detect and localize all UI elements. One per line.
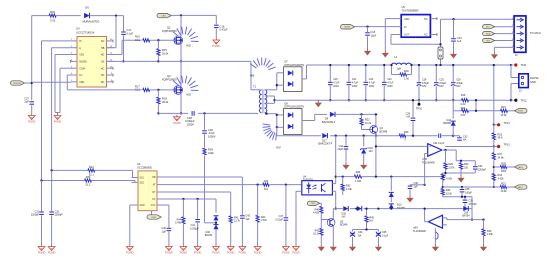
svg-text:NC: NC (424, 18, 428, 21)
svg-text:10.0k: 10.0k (500, 114, 507, 117)
resistor R33 (341, 175, 353, 194)
svg-text:R16: R16 (135, 35, 140, 39)
net label MCU3 (483, 38, 495, 42)
svg-text:LO: LO (79, 74, 82, 77)
capacitor C47 (276, 185, 289, 245)
resistor R26 (399, 131, 409, 141)
capacitor C30 (202, 113, 216, 147)
svg-text:DTPG20H1200TN: DTPG20H1200TN (285, 64, 305, 67)
capacitor C34 (473, 161, 487, 173)
svg-text:PGND: PGND (282, 251, 290, 255)
svg-text:10µF: 10µF (371, 34, 377, 37)
test point TP10 (416, 100, 423, 110)
svg-text:PGND: PGND (239, 251, 247, 255)
ground PGND C31 (38, 244, 46, 254)
junction rail TP11 (510, 64, 512, 66)
svg-text:2200pF: 2200pF (478, 168, 487, 171)
svg-text:0.1µF: 0.1µF (127, 31, 134, 35)
capacitor C31 (31, 181, 44, 245)
ground PGND R41 (227, 244, 235, 254)
wire D15 row (333, 208, 472, 210)
svg-text:SS1: SS1 (140, 177, 145, 179)
svg-text:C21 0.1µF: C21 0.1µF (433, 142, 445, 145)
svg-text:IN: IN (404, 26, 407, 29)
regulator U5 TLV70450 (401, 5, 430, 37)
ground AGND U5 (382, 51, 389, 58)
svg-text:ISNS: ISNS (518, 111, 524, 113)
heatsink H03 (173, 76, 199, 97)
wire D8 anodes (276, 114, 284, 129)
svg-text:TL103WAD: TL103WAD (413, 230, 426, 233)
resistor R15 (157, 40, 169, 61)
diode pack D8 (284, 102, 305, 134)
U6B output (442, 149, 456, 151)
test point TP14 (493, 122, 510, 126)
ground PGND U4 (292, 244, 300, 254)
svg-text:1µF: 1µF (457, 40, 462, 43)
svg-text:R26: R26 (404, 131, 409, 134)
wire J2 pin3 (494, 33, 514, 35)
resistor R44 (175, 199, 185, 244)
svg-text:PGND: PGND (165, 251, 173, 255)
net label IOUT (515, 109, 528, 113)
svg-text:0.47µF: 0.47µF (220, 28, 229, 32)
ground PGND C47 (282, 244, 290, 254)
svg-text:20.0k: 20.0k (162, 100, 169, 104)
svg-text:R36: R36 (264, 180, 269, 183)
wire R27 row left (462, 186, 494, 188)
wire D8 cathode (302, 114, 315, 120)
wire TP13 to opamp (446, 146, 494, 148)
wire 5V line (441, 18, 515, 20)
wire fb top (456, 150, 475, 161)
resistor R20 (461, 107, 501, 117)
ground PGND C27 (28, 113, 36, 123)
heatsink H08 (250, 58, 276, 78)
U3 pins (71, 39, 114, 84)
capacitor C40 (162, 227, 172, 244)
svg-text:3.32: 3.32 (50, 18, 56, 22)
wire fb mid row (443, 196, 472, 198)
wire U3 HO to gate (107, 40, 142, 54)
resistor R17 (135, 84, 175, 91)
svg-text:COM: COM (79, 67, 85, 70)
wire R35 join (442, 186, 462, 188)
svg-text:D6: D6 (85, 6, 89, 10)
transistor Q4 (370, 126, 388, 134)
svg-text:12VDRV: 12VDRV (13, 83, 22, 85)
capacitor C21b (433, 134, 445, 145)
zener D10 (360, 135, 373, 163)
svg-text:10.2k: 10.2k (313, 233, 320, 236)
net label IOUT_FB (515, 185, 527, 189)
ground AGND bus (315, 100, 322, 107)
svg-text:Q3: Q3 (167, 74, 171, 78)
ground PGND VSS-COM (54, 113, 62, 123)
svg-text:VCC: VCC (151, 205, 156, 207)
svg-text:1µF: 1µF (246, 218, 251, 221)
resistor R39 (203, 148, 214, 220)
capacitor C21 (347, 64, 359, 102)
junction Q2 drain (180, 14, 182, 16)
diode D12 (442, 111, 455, 136)
ground AGND C45 (375, 244, 382, 251)
ground AGND R30 (457, 176, 464, 183)
svg-text:BAT54: BAT54 (462, 215, 470, 218)
resistor R45 (365, 207, 375, 229)
svg-text:100V: 100V (369, 85, 375, 88)
wire opto row (336, 176, 354, 178)
svg-text:NA: NA (407, 116, 411, 119)
ground PGND C32 (48, 244, 56, 254)
ground AGND U6A (432, 244, 439, 251)
junction HB node (115, 14, 117, 16)
ground PGND C43 (239, 244, 247, 254)
wire FB row2 (40, 179, 84, 181)
ground PGND Q3 (173, 115, 181, 125)
svg-text:IADJ: IADJ (518, 186, 523, 189)
svg-text:PGND: PGND (54, 120, 62, 124)
junction R22 (360, 113, 362, 115)
svg-text:HI: HI (79, 40, 82, 43)
wire fb bottom (443, 172, 476, 174)
capacitor C28 (185, 111, 195, 126)
diode pack D7 (284, 61, 305, 92)
capacitor C32 (49, 170, 63, 244)
svg-text:Q2: Q2 (167, 25, 171, 29)
svg-text:42V/3A: 42V/3A (530, 76, 539, 80)
svg-text:NC: NC (101, 81, 105, 84)
svg-text:OB: OB (152, 177, 156, 179)
svg-text:R21: R21 (501, 106, 506, 109)
wire U5 OUT (391, 35, 441, 45)
svg-text:20.0k: 20.0k (162, 52, 169, 56)
svg-text:1200V: 1200V (187, 123, 195, 127)
ground AGND C18 (364, 49, 371, 56)
svg-text:TO MCU: TO MCU (530, 31, 541, 35)
ground AGND D10 (360, 163, 367, 170)
wire R20 branch left (453, 100, 461, 111)
svg-text:MURA160T3G: MURA160T3G (82, 19, 99, 23)
U6A inputs (443, 218, 484, 225)
svg-text:100pF: 100pF (465, 191, 472, 194)
wire U2 row3 (166, 192, 231, 216)
wire sense column (493, 64, 495, 125)
wire U2 row1 (166, 177, 243, 215)
svg-text:R19: R19 (461, 94, 466, 97)
junction R32 row (375, 175, 444, 177)
wire T1 secondary top (265, 89, 277, 91)
U6A power glyph (435, 228, 438, 244)
svg-text:12.7k: 12.7k (234, 220, 241, 223)
resistor R42 (256, 185, 268, 245)
capacitor C44 (350, 230, 363, 245)
svg-text:R24: R24 (89, 166, 94, 169)
svg-text:DTPG20H1200TN: DTPG20H1200TN (285, 106, 305, 109)
svg-text:2200pF: 2200pF (55, 214, 64, 217)
capacitor C27 (24, 96, 34, 113)
wire T1 tap lower (265, 102, 275, 104)
wire U3 pin5 COM (58, 68, 71, 113)
resistor R29 (444, 150, 455, 173)
svg-text:BC846: BC846 (340, 224, 348, 227)
wire fb right col (471, 197, 473, 220)
capacitor C18 (365, 27, 377, 49)
svg-text:VADJ: VADJ (518, 166, 523, 169)
svg-text:2.87k: 2.87k (449, 166, 456, 169)
resistor R27 (494, 182, 515, 193)
svg-text:PGND: PGND (213, 44, 221, 48)
svg-text:NA: NA (358, 235, 362, 238)
wire 42V rail (307, 64, 512, 66)
svg-text:PGND: PGND (212, 251, 220, 255)
svg-text:10.2k: 10.2k (365, 122, 372, 125)
resistor R10 (49, 10, 81, 22)
svg-text:49.9: 49.9 (498, 137, 503, 140)
svg-text:H07: H07 (276, 147, 281, 150)
svg-text:R32: R32 (356, 171, 361, 174)
svg-text:12V: 12V (369, 150, 374, 153)
svg-text:210k: 210k (208, 151, 214, 155)
wire U4 out top (332, 175, 336, 183)
wire U3 HB right (107, 47, 117, 49)
net label VOUT_FB (515, 165, 528, 169)
svg-text:100V: 100V (387, 85, 393, 88)
svg-text:R39: R39 (208, 148, 213, 152)
wire D14 corner (471, 209, 473, 221)
svg-text:PGND: PGND (48, 251, 56, 255)
wire Q4 collector (375, 113, 377, 126)
junction R28 (493, 166, 495, 168)
ground PGND C40 (165, 244, 173, 254)
op-amp U3 UCC27714 body (76, 27, 107, 87)
svg-text:100k: 100k (501, 170, 507, 173)
junction R27 (493, 186, 495, 188)
capacitor C29 (406, 99, 416, 137)
heatsink H02 (173, 27, 199, 48)
wire D7 cathode to rail (302, 65, 307, 79)
wire snubber row (277, 127, 453, 135)
wire U3 HS rail (107, 60, 159, 62)
resistor R46 (482, 218, 494, 244)
junction VDD label (31, 82, 33, 84)
resistor R21 (500, 106, 514, 117)
ground AGND J2 (491, 52, 498, 59)
resistor R32 (354, 171, 442, 183)
capacitor C22 (364, 64, 376, 102)
svg-text:2200pF: 2200pF (31, 214, 40, 217)
resistor R24 (88, 166, 133, 178)
wire U2 row2 (166, 183, 302, 185)
svg-text:34.8k: 34.8k (498, 157, 505, 160)
svg-text:PGND: PGND (227, 251, 235, 255)
svg-text:R28: R28 (501, 162, 506, 165)
svg-text:NO/EN: NO/EN (79, 61, 87, 64)
svg-text:1SS355: 1SS355 (442, 122, 451, 125)
svg-text:R17: R17 (135, 84, 140, 88)
svg-text:TP14: TP14 (504, 122, 511, 125)
svg-text:4700pF: 4700pF (469, 203, 478, 206)
svg-text:1.00: 1.00 (404, 78, 409, 81)
svg-text:U3: U3 (76, 27, 80, 31)
wire Q4 base (362, 129, 373, 131)
wire T1 primary top (251, 61, 261, 89)
ground PGND U2 (126, 244, 134, 254)
wire U4 out bottom (332, 191, 336, 209)
svg-text:H08: H08 (250, 74, 255, 77)
svg-text:63V: 63V (439, 85, 444, 88)
capacitor C19 (451, 18, 462, 51)
capacitor C43 (240, 215, 250, 245)
svg-text:FQPF18N50: FQPF18N50 (162, 77, 177, 81)
ground PGND C41 (194, 244, 202, 254)
svg-text:HB: HB (101, 47, 105, 50)
wire T1 tap upper (265, 95, 275, 97)
capacitor C10 (338, 135, 349, 163)
capacitor C26 (451, 64, 464, 102)
net label MCU1 (483, 25, 495, 29)
svg-text:63V: 63V (422, 85, 427, 88)
svg-text:SDA: SDA (486, 33, 491, 36)
ground AGND R46 (480, 244, 487, 251)
junction R15 bottom (157, 60, 159, 62)
resistor R16 (135, 35, 175, 42)
ground AGND C36 (406, 196, 413, 203)
wire U6B input row (375, 145, 425, 176)
wire T1 tap join (273, 96, 275, 103)
svg-text:R15: R15 (162, 48, 167, 52)
resistor R18 parallel (390, 64, 412, 81)
svg-text:UCC28600D: UCC28600D (137, 165, 152, 169)
svg-text:NC: NC (424, 34, 428, 37)
svg-text:63V: 63V (456, 85, 461, 88)
svg-text:TP10: TP10 (416, 107, 423, 110)
capacitor C23 (382, 64, 394, 102)
resistor R30b (85, 176, 136, 187)
svg-text:22pF: 22pF (338, 148, 344, 151)
ground AGND C19 (450, 52, 457, 59)
resistor R28 (494, 162, 515, 173)
svg-text:5.49k: 5.49k (175, 222, 182, 225)
svg-text:NC: NC (101, 67, 105, 70)
svg-text:PGND: PGND (173, 121, 181, 125)
resistor R43 (313, 223, 323, 245)
transformer T1 (253, 84, 267, 113)
wire D7 anodes (276, 73, 284, 90)
svg-text:OC: OC (152, 199, 156, 201)
diode D15a (342, 206, 349, 219)
U6A output (423, 207, 428, 221)
capacitor C38 (460, 186, 473, 197)
junction Q2 source rail (180, 60, 182, 62)
svg-text:10.0k: 10.0k (446, 192, 453, 195)
wire half-bridge mid (158, 60, 251, 62)
wire J2 pin2 (494, 26, 514, 28)
svg-text:R10: R10 (50, 10, 55, 14)
svg-text:100V: 100V (352, 85, 358, 88)
svg-text:BC846: BC846 (380, 130, 388, 133)
wire U5 GND (385, 19, 394, 51)
capacitor C17 (121, 16, 133, 62)
wire R20 branch right (475, 99, 477, 112)
svg-text:1000V: 1000V (208, 135, 216, 139)
capacitor C33 (453, 135, 468, 141)
capacitor C25 (434, 64, 447, 102)
wire U2 GND (130, 205, 132, 244)
svg-text:OUT: OUT (404, 34, 410, 37)
svg-text:1µF: 1µF (414, 185, 419, 188)
junction snubber D12 (452, 135, 454, 137)
optocoupler U4 (302, 175, 333, 195)
svg-text:4.42k: 4.42k (313, 212, 320, 215)
svg-text:R20: R20 (461, 107, 466, 110)
wire Q4 emitter (375, 133, 377, 137)
svg-text:GND: GND (530, 80, 536, 84)
svg-text:100V: 100V (333, 85, 339, 88)
net label U2 bottom (147, 211, 161, 220)
capacitor C24 (417, 64, 430, 102)
svg-text:T1: T1 (253, 84, 257, 88)
wire R39 to D16 (205, 220, 218, 224)
test point TP13 (493, 144, 510, 148)
jumper J4 (438, 19, 443, 66)
ground AGND R43 (318, 244, 325, 251)
diode D15b (357, 206, 362, 211)
svg-text:HO: HO (101, 54, 105, 57)
test point TP12 (511, 99, 527, 103)
ground AGND C44 (349, 244, 356, 251)
net label MCU2 (483, 31, 495, 35)
svg-text:2.49k: 2.49k (487, 233, 494, 236)
column x335 (335, 135, 337, 177)
svg-text:U6A: U6A (413, 226, 418, 229)
transistor Q6 (327, 219, 348, 227)
svg-text:PGND: PGND (194, 251, 202, 255)
resistor R40 (313, 206, 323, 219)
resistor R36b (263, 180, 270, 191)
resistor R22 (360, 114, 372, 129)
wire VDD left rail (32, 16, 50, 101)
diode D17 (318, 133, 333, 146)
svg-text:HS: HS (101, 61, 105, 64)
svg-text:TP12: TP12 (521, 99, 528, 102)
svg-text:TL103WAD: TL103WAD (422, 161, 435, 164)
capacitor C16 (214, 15, 228, 37)
junction C30 top (203, 112, 205, 114)
svg-text:GND: GND (404, 18, 410, 21)
svg-text:NA: NA (342, 216, 346, 219)
svg-text:NC: NC (101, 74, 105, 77)
svg-text:0.033µF: 0.033µF (190, 227, 199, 230)
svg-text:1.34k: 1.34k (355, 180, 362, 183)
resistor R36 (441, 188, 453, 196)
capacitor C41 (190, 199, 200, 244)
capacitor C20 (328, 64, 340, 102)
svg-text:0.02: 0.02 (461, 114, 466, 117)
resistor R19 (461, 94, 511, 106)
svg-text:FQPF18N50: FQPF18N50 (162, 29, 177, 33)
wire U3 LO to gate (67, 75, 70, 90)
svg-text:GND: GND (140, 205, 145, 207)
svg-text:4.42k: 4.42k (446, 178, 453, 181)
svg-text:C17: C17 (127, 28, 132, 32)
ground PGND D16 (212, 244, 220, 254)
wire xcap row (353, 228, 379, 230)
svg-text:1µF: 1µF (162, 230, 167, 233)
wire Q6 collector (332, 209, 334, 220)
wire J2 pin5 (494, 47, 514, 52)
resistor R35 (441, 173, 453, 187)
